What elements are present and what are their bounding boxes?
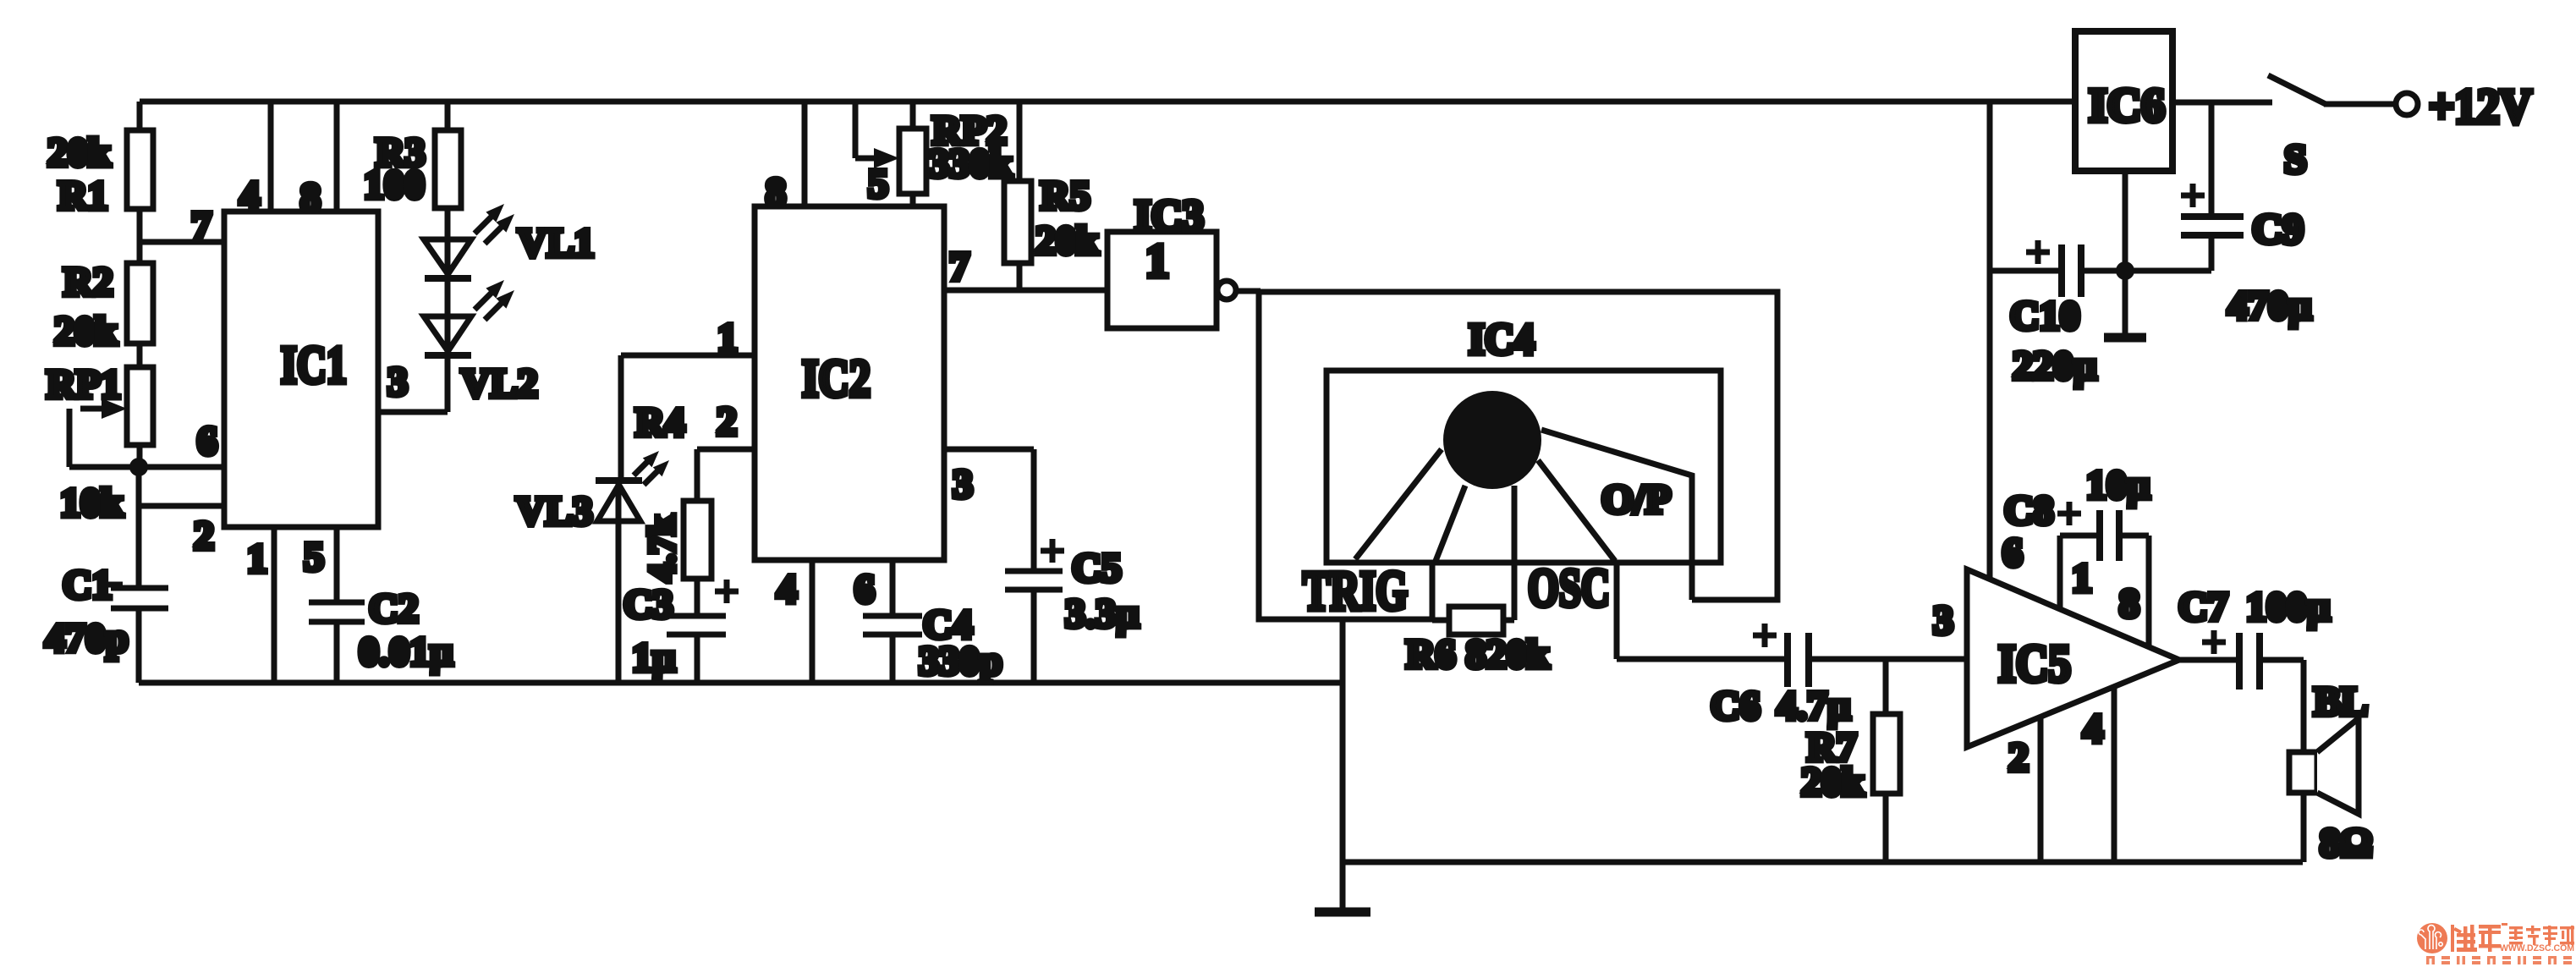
resistor R7 20k xyxy=(1801,659,1900,862)
wire C6 to IC5 pin 3 xyxy=(1809,657,1967,662)
wire IC3 output to IC4 xyxy=(1236,288,1261,294)
wire IC1 pin 6 xyxy=(139,464,224,470)
wire IC1 pin 1 xyxy=(272,527,277,683)
svg-text:6: 6 xyxy=(197,419,217,464)
wire IC2 pin 1 xyxy=(621,355,755,481)
capacitor C8 10u bootstrap xyxy=(2004,463,2150,646)
svg-text:1: 1 xyxy=(1145,235,1169,288)
svg-text:4: 4 xyxy=(777,567,797,612)
svg-text:0.01µ: 0.01µ xyxy=(359,629,453,674)
svg-text:C3: C3 xyxy=(623,582,673,627)
wire IC2 pin 6 xyxy=(890,560,896,616)
IC4 slot edge xyxy=(1430,561,1436,620)
svg-text:BL: BL xyxy=(2314,679,2368,724)
svg-text:R2: R2 xyxy=(63,260,113,305)
svg-text:3.3µ: 3.3µ xyxy=(1065,591,1140,636)
pin 3 label xyxy=(387,360,408,404)
pin 4 label xyxy=(239,173,260,218)
IC4 internal lead 2 xyxy=(1436,486,1465,561)
wire bottom-right ground bus xyxy=(1343,860,2303,865)
svg-text:C8: C8 xyxy=(2004,488,2054,533)
svg-text:IC2: IC2 xyxy=(802,350,871,408)
svg-text:WWW.DZSC.COM: WWW.DZSC.COM xyxy=(2500,943,2574,953)
svg-text:TRIG: TRIG xyxy=(1303,560,1408,622)
svg-text:6: 6 xyxy=(854,567,875,612)
svg-text:R6 820k: R6 820k xyxy=(1406,632,1550,677)
svg-text:C10: C10 xyxy=(2010,294,2080,338)
svg-text:4.7µ: 4.7µ xyxy=(1777,684,1851,728)
LED VL3 xyxy=(516,451,669,683)
capacitor C9 470u polarized xyxy=(2181,102,2312,328)
svg-text:5: 5 xyxy=(868,162,888,206)
wire IC1 pin 2 xyxy=(139,467,224,506)
svg-text:8: 8 xyxy=(300,175,321,220)
amplifier IC5 triangle xyxy=(1967,569,2179,747)
wire IC2 pin 7 to IC3 xyxy=(944,288,1107,294)
svg-text:IC1: IC1 xyxy=(281,337,347,394)
svg-text:R4: R4 xyxy=(635,400,685,445)
svg-text:C9: C9 xyxy=(2252,205,2304,252)
regulator IC6 box xyxy=(2075,31,2172,171)
resistor R1 20k xyxy=(47,102,153,218)
ground xyxy=(1315,908,1370,917)
svg-text:C6: C6 xyxy=(1711,684,1760,728)
svg-text:4.7k: 4.7k xyxy=(641,514,683,582)
speaker BL 8ohm xyxy=(2289,679,2372,865)
pin 6 label xyxy=(2002,530,2023,575)
svg-text:100: 100 xyxy=(364,162,425,207)
capacitor C1 470p xyxy=(45,506,168,683)
wire IC5 pin 2 xyxy=(2038,717,2044,862)
pin 1 label xyxy=(2072,556,2092,601)
module IC4 outer outline xyxy=(1259,292,1777,619)
node junction C9 C10 ground xyxy=(2116,261,2134,280)
svg-text:2: 2 xyxy=(194,514,214,558)
wire R3 through VL1 VL2 to IC1 pin 3 xyxy=(378,208,448,412)
potentiometer RP1 10k xyxy=(47,362,153,525)
pin 3 label xyxy=(1933,598,1953,643)
svg-text:100µ: 100µ xyxy=(2246,585,2331,629)
svg-text:8: 8 xyxy=(2119,581,2139,626)
pin 2 label xyxy=(717,399,737,444)
wire IC5 pin 6 from supply xyxy=(1987,102,1993,580)
wire R1 to R2 xyxy=(137,209,143,263)
svg-text:4: 4 xyxy=(239,173,260,218)
svg-text:+12V: +12V xyxy=(2429,79,2532,134)
wire top supply bus xyxy=(140,99,2075,105)
pin 4 label xyxy=(777,567,797,612)
svg-text:3: 3 xyxy=(953,462,973,507)
capacitor C10 220u polarized xyxy=(1990,240,2211,388)
svg-text:470µ: 470µ xyxy=(2227,283,2312,328)
pin 7 label xyxy=(949,244,969,289)
pin 1 label xyxy=(717,316,738,360)
svg-text:2: 2 xyxy=(717,399,737,444)
svg-text:C7: C7 xyxy=(2178,585,2228,629)
wire IC2 pin 2 xyxy=(697,449,755,501)
potentiometer RP2 330k xyxy=(855,102,1013,206)
svg-text:20k: 20k xyxy=(47,130,111,175)
resistor R2 20k xyxy=(54,260,153,354)
capacitor C7 100u polarized xyxy=(2178,585,2331,690)
svg-text:IC5: IC5 xyxy=(1998,635,2071,693)
timer IC2 box xyxy=(755,206,944,560)
inverter gate IC3 xyxy=(1107,192,1236,328)
wire IC6 output to switch xyxy=(2172,100,2272,106)
svg-text:IC4: IC4 xyxy=(1469,316,1535,364)
svg-text:S: S xyxy=(2284,137,2307,182)
pin 6 label xyxy=(197,419,217,464)
svg-text:O/P: O/P xyxy=(1601,477,1671,522)
wire IC1 pin 7 xyxy=(140,239,224,245)
svg-text:1: 1 xyxy=(717,316,738,360)
op-amp IC1 timer box xyxy=(224,212,378,527)
node junction RP1 wiper / pin6 / C1 xyxy=(129,458,148,476)
svg-text:IC3: IC3 xyxy=(1134,192,1204,240)
capacitor C5 3.3u polarized xyxy=(1005,539,1140,683)
svg-text:220µ: 220µ xyxy=(2013,343,2097,388)
svg-text:470p: 470p xyxy=(45,616,129,661)
capacitor C2 0.01u xyxy=(309,586,453,683)
wire R2 to RP1 xyxy=(137,343,143,367)
svg-text:OSC: OSC xyxy=(1528,558,1610,618)
svg-text:3: 3 xyxy=(387,360,408,404)
wire IC5 pin 4 xyxy=(2112,687,2117,862)
svg-text:2: 2 xyxy=(2008,735,2029,780)
LED VL1 xyxy=(424,204,595,278)
svg-text:10µ: 10µ xyxy=(2086,463,2150,508)
IC4 internal lead to TRIG xyxy=(1355,449,1442,559)
svg-text:4: 4 xyxy=(2083,706,2103,751)
OSC pin label xyxy=(1528,558,1610,618)
TRIG pin label xyxy=(1303,560,1408,622)
svg-text:8Ω: 8Ω xyxy=(2320,821,2372,865)
svg-text:20k: 20k xyxy=(54,309,118,354)
capacitor C6 4.7u polarized xyxy=(1711,624,1851,728)
resistor R6 820k xyxy=(1406,607,1550,677)
pin 8 label xyxy=(766,170,786,215)
pin 7 label xyxy=(191,204,211,249)
svg-text:RP1: RP1 xyxy=(47,362,121,407)
IC4 internal lead to O/P xyxy=(1541,430,1692,600)
wire IC1 pin 5 xyxy=(334,527,340,602)
svg-text:IC6: IC6 xyxy=(2089,80,2165,132)
svg-text:VL1: VL1 xyxy=(518,221,595,266)
pin 2 label xyxy=(194,514,214,558)
IC4 internal lead to R6 xyxy=(1512,486,1518,620)
terminal +12V xyxy=(2429,79,2532,134)
svg-text:R5: R5 xyxy=(1041,173,1090,218)
resistor R4 4.7k xyxy=(635,400,711,582)
svg-text:1: 1 xyxy=(247,536,267,581)
pin 1 label xyxy=(247,536,267,581)
wire OSC pin to C6 xyxy=(1617,563,1788,659)
wire IC2 pin 8 xyxy=(802,102,808,206)
pin 5 label xyxy=(304,535,324,580)
svg-text:330k: 330k xyxy=(929,141,1013,186)
svg-text:10k: 10k xyxy=(60,481,124,525)
wire IC6 bottom to node xyxy=(2123,171,2128,271)
pin 4 label xyxy=(2083,706,2103,751)
watermark logo dzsc xyxy=(2417,923,2574,964)
wire IC2 pin 4 xyxy=(810,560,816,683)
resistor R5 20k xyxy=(1004,102,1099,290)
LED VL2 xyxy=(424,280,538,406)
svg-text:20k: 20k xyxy=(1801,760,1865,805)
svg-text:1: 1 xyxy=(2072,556,2092,601)
IC4 internal lead to OSC xyxy=(1538,460,1615,561)
svg-text:6: 6 xyxy=(2002,530,2023,575)
svg-text:330p: 330p xyxy=(919,639,1002,684)
svg-text:8: 8 xyxy=(766,170,786,215)
pin 3 label xyxy=(953,462,973,507)
wire TRIG pin down xyxy=(1340,619,1346,911)
capacitor C3 1u polarized xyxy=(623,579,739,683)
resistor R3 100 xyxy=(364,102,461,208)
pin 8 label xyxy=(300,175,321,220)
svg-text:C2: C2 xyxy=(369,586,419,631)
svg-text:C5: C5 xyxy=(1072,546,1122,591)
pin 6 label xyxy=(854,567,875,612)
wire IC2 pin 3 xyxy=(944,449,1034,571)
module IC4 inner box xyxy=(1326,371,1721,563)
wire bottom-left ground bus xyxy=(139,680,1343,686)
wire IC1 pin 4 xyxy=(268,102,274,212)
capacitor C4 330p xyxy=(863,602,1002,684)
ground xyxy=(2104,271,2146,338)
wire C7 to speaker xyxy=(2260,660,2304,752)
pin 8 label xyxy=(2119,581,2139,626)
svg-text:VL2: VL2 xyxy=(461,361,538,406)
svg-text:R1: R1 xyxy=(58,173,108,218)
svg-text:1µ: 1µ xyxy=(632,635,676,680)
svg-text:5: 5 xyxy=(304,535,324,580)
pin 5 label xyxy=(868,162,888,206)
wire IC1 pin 8 xyxy=(334,102,340,212)
svg-text:7: 7 xyxy=(949,244,969,289)
pin 2 label xyxy=(2008,735,2029,780)
svg-text:3: 3 xyxy=(1933,598,1953,643)
switch S xyxy=(2268,75,2418,182)
IC4 chip blob xyxy=(1443,391,1541,489)
svg-text:20k: 20k xyxy=(1035,218,1099,263)
svg-text:VL3: VL3 xyxy=(516,489,593,534)
